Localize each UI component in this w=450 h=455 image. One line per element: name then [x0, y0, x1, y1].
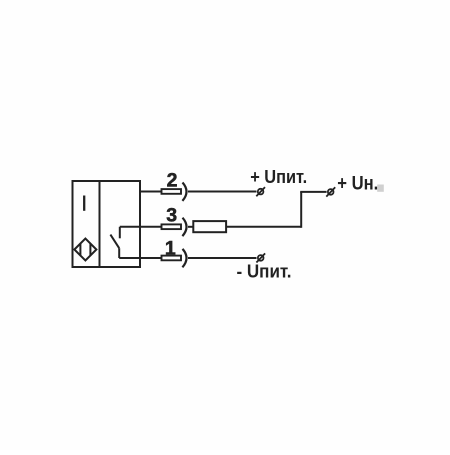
connector socket arc pin 2	[182, 183, 186, 201]
svg-text:+ Uн.: + Uн.	[337, 174, 378, 195]
connector socket arc pin 1	[182, 249, 186, 267]
sensor body divider	[99, 181, 101, 267]
terminal -Upit (circle with slash)	[256, 253, 265, 262]
terminal +Un (circle with slash)	[326, 187, 335, 196]
marker I (inductive sensor position mark)	[83, 196, 85, 211]
connector pin 2	[162, 189, 182, 194]
wire pin1 from switch to connector	[119, 257, 161, 259]
terminal +Upit (circle with slash)	[256, 187, 265, 196]
connector pin 1	[162, 256, 182, 261]
switch contact (NO output contact)	[110, 227, 119, 258]
wire pin1 to -Upit terminal	[188, 257, 257, 259]
wire pin3 from switch to connector	[120, 226, 162, 228]
svg-text:3: 3	[166, 205, 177, 227]
wire pin2 to +Upit terminal	[188, 191, 257, 193]
sensor body outline	[73, 181, 141, 267]
svg-text:+ Uпит.: + Uпит.	[250, 166, 307, 187]
inductive proximity sensor symbol (rhombus with chords)	[74, 239, 96, 261]
wire corner node up	[300, 192, 302, 228]
connector pin 3	[162, 224, 182, 229]
wire resistor to corner node	[226, 226, 301, 228]
wire pin3 to load resistor	[188, 226, 193, 228]
wire pin2 from body to connector	[140, 191, 162, 193]
svg-text:2: 2	[167, 170, 178, 192]
connector socket arc pin 3	[182, 218, 186, 236]
svg-text:1: 1	[165, 238, 176, 260]
wire corner to +Un terminal	[300, 191, 326, 193]
load resistor	[193, 221, 226, 232]
svg-text:- Uпит.: - Uпит.	[237, 261, 292, 282]
